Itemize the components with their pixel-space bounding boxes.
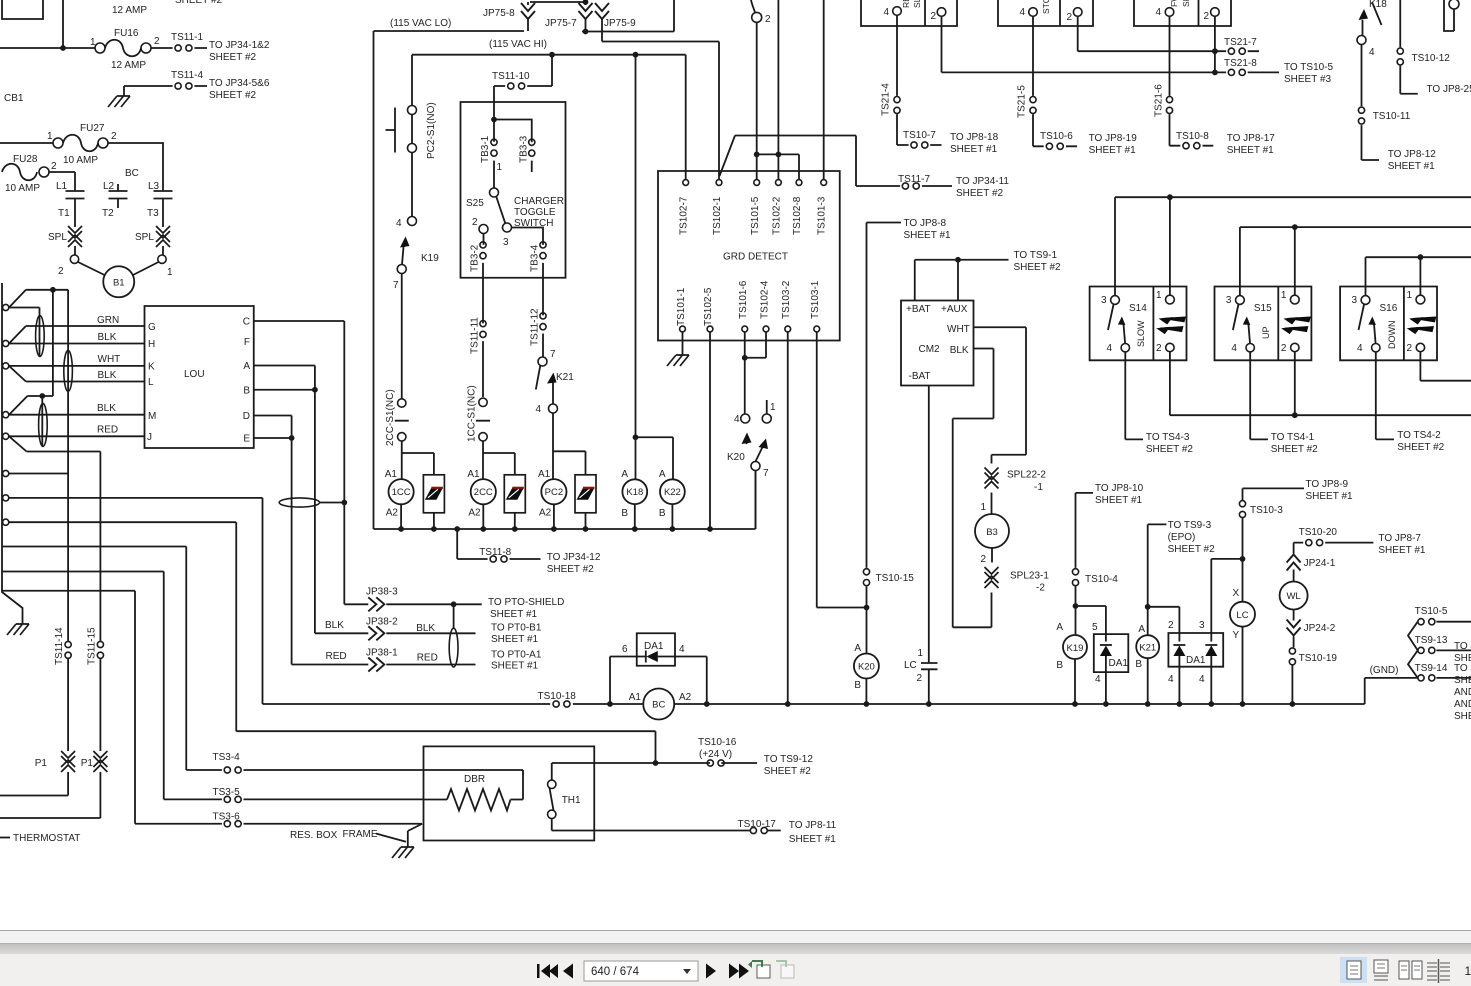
svg-text:1: 1 xyxy=(980,502,986,513)
svg-text:1: 1 xyxy=(770,402,776,413)
svg-text:K20: K20 xyxy=(858,662,875,673)
svg-text:3: 3 xyxy=(1226,295,1232,306)
svg-text:SHEET #1: SHEET #1 xyxy=(490,609,537,620)
svg-text:BLK: BLK xyxy=(98,370,117,381)
svg-text:TO JP8-7: TO JP8-7 xyxy=(1378,533,1421,544)
svg-text:2: 2 xyxy=(51,161,57,172)
svg-text:TS102-8: TS102-8 xyxy=(792,196,803,235)
svg-text:640 / 674: 640 / 674 xyxy=(591,966,640,978)
svg-text:1: 1 xyxy=(497,162,503,173)
svg-text:TO TS4-3: TO TS4-3 xyxy=(1146,432,1190,443)
svg-text:SHEET #2: SHEET #2 xyxy=(547,564,594,575)
svg-text:SHEET #1: SHEET #1 xyxy=(1378,545,1425,556)
svg-text:A1: A1 xyxy=(629,692,642,703)
svg-text:TS3-4: TS3-4 xyxy=(213,752,241,763)
svg-text:B: B xyxy=(1135,659,1142,670)
svg-text:TB3-2: TB3-2 xyxy=(470,244,481,272)
svg-text:7: 7 xyxy=(393,280,399,291)
svg-text:TS10-15: TS10-15 xyxy=(876,573,915,584)
svg-text:SHEET #2: SHEET #2 xyxy=(1146,444,1193,455)
svg-text:TS11-8: TS11-8 xyxy=(479,547,511,558)
svg-text:2: 2 xyxy=(1168,620,1174,631)
svg-text:3: 3 xyxy=(1199,620,1205,631)
svg-text:SHEET #1: SHEET #1 xyxy=(789,834,836,845)
svg-text:4: 4 xyxy=(1357,343,1363,354)
svg-text:L: L xyxy=(148,377,154,388)
svg-text:TS3-5: TS3-5 xyxy=(213,787,241,798)
svg-text:TS10-19: TS10-19 xyxy=(1299,653,1338,664)
svg-text:TS10-11: TS10-11 xyxy=(1373,111,1411,122)
svg-text:SHEET #2: SHEET #2 xyxy=(1397,442,1444,453)
svg-text:TO JP8-9: TO JP8-9 xyxy=(1306,479,1349,490)
svg-text:(EPO): (EPO) xyxy=(1168,532,1196,543)
svg-text:K21: K21 xyxy=(556,372,574,383)
svg-text:TS10-5: TS10-5 xyxy=(1415,606,1448,617)
svg-text:4: 4 xyxy=(1199,674,1205,685)
svg-text:7: 7 xyxy=(550,349,556,360)
svg-text:3: 3 xyxy=(1101,295,1107,306)
svg-text:SPL: SPL xyxy=(135,232,154,243)
svg-text:TS10-6: TS10-6 xyxy=(1040,131,1073,142)
svg-text:SPL22-2: SPL22-2 xyxy=(1007,470,1046,481)
svg-text:TS21-4: TS21-4 xyxy=(881,83,892,116)
svg-text:F: F xyxy=(244,337,250,348)
svg-text:TS101-5: TS101-5 xyxy=(750,196,761,235)
svg-text:4: 4 xyxy=(535,404,541,415)
svg-text:4: 4 xyxy=(1155,7,1161,18)
svg-text:7: 7 xyxy=(763,468,769,479)
svg-text:3: 3 xyxy=(503,237,509,248)
svg-text:S15: S15 xyxy=(1254,303,1272,314)
svg-text:A2: A2 xyxy=(679,692,692,703)
svg-text:TO TS9-12: TO TS9-12 xyxy=(764,754,814,765)
svg-text:-BAT: -BAT xyxy=(909,371,931,382)
svg-text:A: A xyxy=(621,469,628,480)
svg-text:TO PT0-B1: TO PT0-B1 xyxy=(491,623,542,634)
svg-text:BC: BC xyxy=(125,168,139,179)
svg-text:TS10-20: TS10-20 xyxy=(1299,527,1338,538)
svg-text:TS101-1: TS101-1 xyxy=(676,287,687,326)
svg-text:T1: T1 xyxy=(58,208,70,219)
svg-text:2: 2 xyxy=(765,14,771,25)
svg-text:LC: LC xyxy=(1236,610,1248,621)
svg-text:K: K xyxy=(148,362,155,373)
svg-text:B: B xyxy=(1056,660,1063,671)
svg-text:TS10-3: TS10-3 xyxy=(1250,505,1283,516)
svg-text:TS103-1: TS103-1 xyxy=(810,280,821,319)
svg-text:JP75-7: JP75-7 xyxy=(545,18,577,29)
svg-text:4: 4 xyxy=(396,218,402,229)
svg-text:TB3-1: TB3-1 xyxy=(480,135,491,163)
svg-text:SHEET: SHEET xyxy=(1454,675,1471,686)
svg-text:SHEET #2: SHEET #2 xyxy=(1014,262,1061,273)
svg-text:Y: Y xyxy=(1233,630,1240,641)
svg-text:RED: RED xyxy=(97,425,118,436)
svg-text:TS11-7: TS11-7 xyxy=(898,174,930,185)
svg-text:FU28: FU28 xyxy=(13,154,38,165)
svg-text:BLK: BLK xyxy=(416,623,435,634)
svg-text:TO JP8-18: TO JP8-18 xyxy=(950,132,999,143)
svg-text:TS102-5: TS102-5 xyxy=(703,287,714,326)
svg-text:SHEET #2: SHEET #2 xyxy=(175,0,222,6)
svg-text:JP24-1: JP24-1 xyxy=(1304,558,1336,569)
svg-text:A: A xyxy=(1138,624,1145,635)
svg-text:TB3-3: TB3-3 xyxy=(519,135,530,163)
svg-text:TH1: TH1 xyxy=(562,795,581,806)
svg-text:TO TS9-1: TO TS9-1 xyxy=(1014,250,1058,261)
svg-text:TS21-7: TS21-7 xyxy=(1224,37,1257,48)
svg-text:TS10-8: TS10-8 xyxy=(1176,131,1209,142)
svg-text:SHEET #1: SHEET #1 xyxy=(1095,495,1142,506)
svg-text:2: 2 xyxy=(1156,343,1162,354)
svg-text:SHEET #1: SHEET #1 xyxy=(1388,161,1435,172)
svg-text:BC: BC xyxy=(652,700,665,711)
svg-text:4: 4 xyxy=(1369,47,1375,58)
svg-text:2: 2 xyxy=(1066,12,1072,23)
svg-text:A1: A1 xyxy=(467,469,480,480)
svg-text:K19: K19 xyxy=(1067,643,1084,654)
svg-text:2: 2 xyxy=(472,217,478,228)
svg-text:JP38-3: JP38-3 xyxy=(366,587,398,598)
svg-text:T2: T2 xyxy=(102,208,114,219)
svg-text:FRAME: FRAME xyxy=(343,829,378,840)
svg-text:TS10-4: TS10-4 xyxy=(1085,574,1118,585)
svg-text:UP: UP xyxy=(1261,326,1271,339)
svg-text:+AUX: +AUX xyxy=(941,304,968,315)
svg-text:SHEET #2: SHEET #2 xyxy=(764,766,811,777)
svg-text:TO JP34-1&2: TO JP34-1&2 xyxy=(209,40,270,51)
svg-text:1: 1 xyxy=(167,267,173,278)
svg-text:TS3-6: TS3-6 xyxy=(213,812,241,823)
svg-text:B: B xyxy=(854,680,861,691)
svg-text:1CC-S1(NC): 1CC-S1(NC) xyxy=(467,385,478,442)
svg-text:L3: L3 xyxy=(148,181,160,192)
svg-text:TS10-7: TS10-7 xyxy=(903,130,936,141)
svg-text:TS11-10: TS11-10 xyxy=(492,71,530,82)
svg-text:TO JP8: TO JP8 xyxy=(1454,663,1471,674)
svg-text:D: D xyxy=(243,411,250,422)
svg-text:2: 2 xyxy=(111,131,117,142)
svg-text:4: 4 xyxy=(883,7,889,18)
svg-text:WHT: WHT xyxy=(947,324,970,335)
svg-text:K20: K20 xyxy=(727,452,745,463)
svg-text:X: X xyxy=(1233,588,1240,599)
svg-text:A: A xyxy=(659,469,666,480)
svg-text:SPL: SPL xyxy=(48,232,67,243)
svg-text:E: E xyxy=(243,434,250,445)
svg-text:SWITCH: SWITCH xyxy=(514,218,553,229)
svg-text:2: 2 xyxy=(1281,343,1287,354)
svg-text:TS11-11: TS11-11 xyxy=(470,317,481,354)
svg-text:10 AMP: 10 AMP xyxy=(63,155,98,166)
svg-text:JP75-9: JP75-9 xyxy=(604,18,636,29)
svg-text:4: 4 xyxy=(1095,674,1101,685)
svg-text:TO JP8-17: TO JP8-17 xyxy=(1227,133,1276,144)
svg-text:(GND): (GND) xyxy=(1370,665,1399,676)
svg-text:SHEET #3: SHEET #3 xyxy=(1284,74,1331,85)
svg-text:B: B xyxy=(621,508,628,519)
svg-text:SHEET #2: SHEET #2 xyxy=(956,188,1003,199)
svg-text:THERMOSTAT: THERMOSTAT xyxy=(13,833,80,844)
svg-text:(+24 V): (+24 V) xyxy=(699,749,732,760)
svg-text:S14: S14 xyxy=(1129,303,1147,314)
svg-text:GRD DETECT: GRD DETECT xyxy=(723,252,788,263)
svg-text:JP24-2: JP24-2 xyxy=(1304,623,1336,634)
svg-text:SHEET #1: SHEET #1 xyxy=(904,230,951,241)
svg-text:10 AMP: 10 AMP xyxy=(5,183,40,194)
svg-text:A1: A1 xyxy=(538,469,551,480)
svg-text:B: B xyxy=(243,386,250,397)
svg-text:STOP: STOP xyxy=(1041,0,1051,14)
svg-text:AND: AND xyxy=(1454,687,1471,698)
svg-text:4: 4 xyxy=(734,414,740,425)
svg-text:TO JP9: TO JP9 xyxy=(1454,641,1471,652)
svg-text:GRN: GRN xyxy=(97,315,119,326)
svg-text:K22: K22 xyxy=(664,487,681,498)
svg-text:CB1: CB1 xyxy=(4,93,24,104)
svg-text:1: 1 xyxy=(1156,290,1162,301)
svg-text:4: 4 xyxy=(1168,674,1174,685)
svg-text:(115 VAC HI): (115 VAC HI) xyxy=(489,39,547,50)
svg-text:TS21-5: TS21-5 xyxy=(1017,85,1028,118)
svg-text:SHEET #1: SHEET #1 xyxy=(1306,491,1353,502)
svg-text:TS11-12: TS11-12 xyxy=(530,308,541,346)
svg-text:-1: -1 xyxy=(1034,482,1043,493)
svg-text:RED: RED xyxy=(326,651,347,662)
svg-text:TO TS9-3: TO TS9-3 xyxy=(1168,520,1212,531)
svg-text:C: C xyxy=(243,317,250,328)
svg-text:TO JP34-12: TO JP34-12 xyxy=(547,552,601,563)
svg-text:TO JP8-11: TO JP8-11 xyxy=(789,820,837,831)
svg-text:FU27: FU27 xyxy=(80,123,105,134)
svg-text:K18: K18 xyxy=(1369,0,1387,10)
svg-text:CM2: CM2 xyxy=(919,344,941,355)
svg-text:A2: A2 xyxy=(539,508,552,519)
svg-text:SHEET #1: SHEET #1 xyxy=(1089,145,1136,156)
svg-text:CHARGER: CHARGER xyxy=(514,196,564,207)
svg-text:SPL23-1: SPL23-1 xyxy=(1010,571,1049,582)
svg-text:4: 4 xyxy=(1106,343,1112,354)
svg-text:SHEET #2: SHEET #2 xyxy=(209,52,256,63)
svg-text:SLOW: SLOW xyxy=(1136,320,1146,347)
svg-text:4: 4 xyxy=(1019,7,1025,18)
svg-text:TS103-2: TS103-2 xyxy=(781,280,792,319)
svg-text:1: 1 xyxy=(917,648,923,659)
svg-text:2: 2 xyxy=(930,11,936,22)
svg-text:SHEET #1: SHEET #1 xyxy=(491,661,538,672)
svg-text:WHT: WHT xyxy=(98,354,121,365)
svg-text:AND: AND xyxy=(1454,699,1471,710)
svg-text:FWD: FWD xyxy=(1169,0,1179,7)
svg-text:TO JP8-25: TO JP8-25 xyxy=(1427,84,1471,95)
svg-text:6: 6 xyxy=(622,644,628,655)
svg-text:SHEET #1: SHEET #1 xyxy=(491,634,538,645)
svg-text:DA1: DA1 xyxy=(1186,655,1206,666)
svg-text:DA1: DA1 xyxy=(644,641,664,652)
svg-text:3: 3 xyxy=(1352,295,1358,306)
svg-text:TO JP8-8: TO JP8-8 xyxy=(904,218,947,229)
svg-text:BLK: BLK xyxy=(950,345,969,356)
svg-text:TO TS4-2: TO TS4-2 xyxy=(1397,430,1441,441)
svg-text:TS102-2: TS102-2 xyxy=(772,196,783,235)
svg-text:K18: K18 xyxy=(626,487,643,498)
svg-text:TS10-18: TS10-18 xyxy=(538,691,577,702)
svg-text:BLK: BLK xyxy=(325,620,344,631)
svg-text:A: A xyxy=(854,643,861,654)
svg-text:TS101-6: TS101-6 xyxy=(738,280,749,319)
svg-text:PC2-S1(NO): PC2-S1(NO) xyxy=(426,102,437,159)
svg-text:2: 2 xyxy=(58,266,64,277)
svg-text:4: 4 xyxy=(679,644,685,655)
svg-text:LOU: LOU xyxy=(184,369,205,380)
svg-text:2: 2 xyxy=(980,554,986,565)
svg-text:1: 1 xyxy=(1407,290,1413,301)
svg-text:SLOW: SLOW xyxy=(1181,0,1191,7)
svg-text:TS102-4: TS102-4 xyxy=(760,280,771,319)
svg-text:S16: S16 xyxy=(1380,303,1398,314)
svg-text:1: 1 xyxy=(90,37,96,48)
svg-text:TO JP8-12: TO JP8-12 xyxy=(1388,149,1437,160)
svg-text:12 AMP: 12 AMP xyxy=(112,5,147,16)
svg-text:T3: T3 xyxy=(147,208,159,219)
svg-text:K19: K19 xyxy=(421,253,439,264)
svg-text:2: 2 xyxy=(1203,11,1209,22)
svg-text:G: G xyxy=(148,322,156,333)
svg-text:TS102-7: TS102-7 xyxy=(679,196,690,235)
svg-text:(115 VAC LO): (115 VAC LO) xyxy=(390,18,451,29)
svg-text:B3: B3 xyxy=(986,527,998,538)
svg-text:B1: B1 xyxy=(113,278,125,289)
svg-text:1: 1 xyxy=(1281,290,1287,301)
svg-text:TO PTO-SHIELD: TO PTO-SHIELD xyxy=(488,597,564,608)
svg-text:TS21-6: TS21-6 xyxy=(1154,84,1165,117)
svg-text:DA1: DA1 xyxy=(1109,658,1129,669)
svg-text:LC: LC xyxy=(904,660,917,671)
svg-text:A: A xyxy=(243,361,250,372)
svg-text:A1: A1 xyxy=(385,469,398,480)
svg-text:PC2: PC2 xyxy=(545,487,563,498)
svg-text:2CC: 2CC xyxy=(474,487,493,498)
svg-text:TO JP8-10: TO JP8-10 xyxy=(1095,483,1144,494)
svg-text:1: 1 xyxy=(47,131,53,142)
svg-text:2CC-S1(NC): 2CC-S1(NC) xyxy=(385,389,396,446)
svg-text:SHEET #2: SHEET #2 xyxy=(209,90,256,101)
svg-text:TB3-4: TB3-4 xyxy=(530,244,541,272)
svg-text:DOWN: DOWN xyxy=(1387,321,1397,350)
svg-text:TO JP8-19: TO JP8-19 xyxy=(1089,133,1138,144)
svg-text:TS9-14: TS9-14 xyxy=(1415,663,1448,674)
svg-text:RED: RED xyxy=(417,653,438,664)
svg-text:SHEET #2: SHEET #2 xyxy=(1271,444,1318,455)
svg-text:K21: K21 xyxy=(1139,643,1156,654)
svg-text:10: 10 xyxy=(1465,964,1471,978)
svg-text:12 AMP: 12 AMP xyxy=(111,60,146,71)
svg-text:A: A xyxy=(1056,622,1063,633)
svg-text:A2: A2 xyxy=(386,508,399,519)
svg-text:L1: L1 xyxy=(56,181,68,192)
svg-text:REV: REV xyxy=(901,0,911,8)
svg-text:L2: L2 xyxy=(103,181,115,192)
svg-text:TS21-8: TS21-8 xyxy=(1224,58,1257,69)
svg-text:TO PT0-A1: TO PT0-A1 xyxy=(491,650,542,661)
svg-text:TO JP34-11: TO JP34-11 xyxy=(956,176,1009,187)
svg-text:SLOW: SLOW xyxy=(912,0,922,8)
svg-text:2: 2 xyxy=(1407,343,1413,354)
svg-text:2: 2 xyxy=(916,673,922,684)
svg-text:TS10-17: TS10-17 xyxy=(738,819,777,830)
svg-text:TS9-13: TS9-13 xyxy=(1415,635,1448,646)
svg-text:4: 4 xyxy=(1231,343,1237,354)
svg-text:TS11-15: TS11-15 xyxy=(87,627,98,665)
svg-text:SHEET #1: SHEET #1 xyxy=(950,144,997,155)
svg-text:M: M xyxy=(148,411,156,422)
svg-text:A2: A2 xyxy=(468,508,481,519)
svg-text:P1: P1 xyxy=(35,758,48,769)
svg-text:JP38-2: JP38-2 xyxy=(366,617,398,628)
svg-text:TO JP34-5&6: TO JP34-5&6 xyxy=(209,78,270,89)
svg-text:DBR: DBR xyxy=(464,774,485,785)
svg-text:SHEET #1: SHEET #1 xyxy=(1227,145,1274,156)
svg-text:TO TS4-1: TO TS4-1 xyxy=(1271,432,1315,443)
svg-text:SHEET #2: SHEET #2 xyxy=(1168,544,1215,555)
svg-text:1CC: 1CC xyxy=(392,487,411,498)
svg-text:TS10-16: TS10-16 xyxy=(698,737,737,748)
svg-text:JP75-8: JP75-8 xyxy=(483,8,515,19)
svg-text:BLK: BLK xyxy=(97,403,116,414)
svg-text:5: 5 xyxy=(1092,622,1098,633)
svg-text:TOGGLE: TOGGLE xyxy=(514,207,556,218)
svg-text:FU16: FU16 xyxy=(114,28,139,39)
svg-text:TS102-1: TS102-1 xyxy=(712,196,723,235)
svg-text:RES. BOX: RES. BOX xyxy=(290,830,338,841)
svg-text:S25: S25 xyxy=(466,198,484,209)
svg-text:B: B xyxy=(659,508,666,519)
svg-text:TS10-12: TS10-12 xyxy=(1412,53,1451,64)
svg-text:TS11-4: TS11-4 xyxy=(171,70,203,81)
svg-text:TS11-1: TS11-1 xyxy=(171,32,203,43)
svg-text:TS11-14: TS11-14 xyxy=(54,627,65,665)
svg-text:TS101-3: TS101-3 xyxy=(817,196,828,235)
svg-text:BLK: BLK xyxy=(98,332,117,343)
svg-text:SHEET: SHEET xyxy=(1454,711,1471,722)
svg-text:+BAT: +BAT xyxy=(906,304,931,315)
svg-text:TO TS10-5: TO TS10-5 xyxy=(1284,62,1334,73)
svg-text:2: 2 xyxy=(154,36,160,47)
svg-text:H: H xyxy=(148,339,155,350)
svg-text:JP38-1: JP38-1 xyxy=(366,648,398,659)
svg-text:P1: P1 xyxy=(81,758,94,769)
svg-text:-2: -2 xyxy=(1036,583,1045,594)
svg-text:J: J xyxy=(147,432,152,443)
svg-text:WL: WL xyxy=(1286,591,1300,602)
